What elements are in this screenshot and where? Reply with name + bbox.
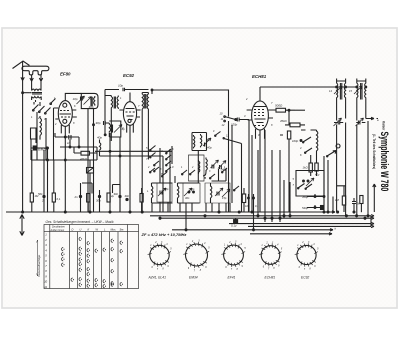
svg-text:30p: 30p (96, 121, 101, 125)
svg-text:0,1: 0,1 (57, 197, 61, 201)
contact (305, 148, 312, 153)
antenna (13, 61, 30, 93)
socket circle ECH81 (259, 242, 283, 270)
wires from T1 (88, 109, 94, 212)
output arrow (366, 117, 378, 119)
svg-text:50k: 50k (38, 192, 43, 196)
contact at EF80 grid (51, 99, 56, 104)
svg-text:30n: 30n (114, 192, 119, 196)
cap bars (81, 97, 83, 101)
cluster verticals (324, 156, 333, 213)
switch left of ECH81 (225, 117, 236, 120)
svg-text:40n: 40n (125, 194, 130, 198)
svg-text:Außen Innen: Außen Innen (50, 229, 65, 232)
coil L2 (40, 118, 42, 140)
svg-text:15p: 15p (222, 196, 227, 200)
svg-text:40μ: 40μ (315, 173, 320, 177)
svg-text:10p: 10p (118, 84, 123, 88)
resistor 47k (81, 151, 90, 155)
100p dot + switch (300, 140, 302, 142)
EF80 top wire (61, 93, 81, 212)
wire (34, 102, 40, 118)
cap right (352, 198, 356, 212)
svg-text:EM34: EM34 (189, 276, 198, 280)
svg-text:30n: 30n (96, 199, 101, 203)
junction antenna (23, 92, 30, 94)
IF transformer 2 (357, 81, 366, 100)
svg-text:10: 10 (44, 280, 47, 284)
resistor vert right edge (360, 196, 363, 204)
LC tank band: block 1 (152, 183, 153, 203)
svg-text:EF41: EF41 (228, 276, 236, 280)
svg-text:U: U (80, 228, 82, 232)
EF80 left grid wire (48, 108, 54, 212)
wire y147 (60, 146, 97, 148)
svg-text:40p: 40p (190, 187, 195, 191)
svg-text:K: K (88, 228, 90, 232)
right bus connector (371, 215, 374, 228)
resistor small right (321, 206, 324, 210)
svg-text:100p: 100p (292, 139, 299, 143)
block 3 (211, 183, 212, 203)
svg-text:10n: 10n (245, 204, 250, 208)
coil left of EC92 (111, 96, 118, 110)
dipole antenna (22, 66, 49, 75)
wire left vertical (23, 93, 31, 212)
svg-text:ECH81: ECH81 (265, 276, 276, 280)
svg-text:Ser.: Ser. (120, 228, 125, 232)
switch arrow diag (327, 151, 336, 157)
svg-text:30p: 30p (164, 187, 169, 191)
input transformer L1 (32, 89, 42, 98)
trimmer 4p (114, 125, 122, 133)
1M resistor right (342, 196, 345, 205)
switch group S1 (33, 105, 51, 114)
coil box T1 (81, 93, 98, 108)
svg-text:EC92: EC92 (301, 276, 309, 280)
cap 6,8k block (33, 146, 37, 150)
band wires (152, 183, 200, 203)
svg-text:Kaiser: Kaiser (381, 121, 385, 131)
contact pair right (150, 146, 156, 158)
wires y151 y156 (95, 151, 172, 156)
svg-text:1n: 1n (67, 141, 71, 145)
svg-text:45kΩ: 45kΩ (280, 119, 288, 123)
svg-text:0,1μ: 0,1μ (231, 224, 237, 228)
top contacts row above band (150, 168, 227, 178)
feeder wires (32, 81, 41, 90)
EC92 pins (119, 110, 140, 117)
svg-text:Symphonie W 780: Symphonie W 780 (379, 132, 391, 192)
table switch marks (61, 237, 123, 288)
svg-text:30p: 30p (89, 105, 94, 109)
svg-text:1M: 1M (335, 198, 340, 202)
socket circle EF41 (221, 242, 246, 272)
EC92 top/bottom wires (127, 93, 134, 213)
cap 100p (236, 118, 250, 122)
LC block A mid (192, 133, 207, 151)
svg-text:(1. Teil des Schaltbildes): (1. Teil des Schaltbildes) (372, 134, 376, 169)
switch ladder (154, 149, 171, 171)
350p (314, 196, 316, 198)
LC block B mid (189, 155, 205, 181)
loop box with contacts (296, 171, 324, 197)
second comp row (234, 186, 239, 190)
EF80 tube U1 (58, 101, 72, 127)
svg-text:Mus.: Mus. (111, 228, 117, 232)
switch right of block A (215, 132, 242, 144)
top links comp row (82, 183, 120, 194)
svg-text:2n: 2n (74, 195, 79, 199)
svg-text:AZ41, EL41: AZ41, EL41 (148, 276, 167, 280)
cap 0,1 on bus (234, 220, 238, 223)
terminal arrow down right (373, 184, 376, 212)
EF80 internals (63, 103, 67, 107)
table frame (44, 225, 139, 289)
svg-text:ZF = 472 kHz + 10,7MHz: ZF = 472 kHz + 10,7MHz (141, 232, 187, 237)
ECH81 tube U3 (252, 101, 269, 130)
IF1 lower caps (334, 121, 343, 125)
coil (109, 123, 112, 133)
IF transformer 1 (337, 81, 346, 100)
svg-text:500Ω: 500Ω (275, 104, 283, 108)
lower-left comp row (30, 193, 33, 202)
socket circle EC92 (295, 242, 319, 271)
ECH81 internals (254, 107, 266, 126)
svg-text:EC92: EC92 (123, 73, 135, 78)
loop box (109, 121, 121, 137)
pointer double arrow (20, 215, 24, 236)
svg-text:1kΩ: 1kΩ (303, 166, 309, 170)
bus wires (6, 212, 371, 234)
svg-text:40p: 40p (97, 136, 102, 140)
svg-text:D: D (72, 228, 74, 232)
socket circle EM34 (183, 241, 210, 273)
svg-text:30n: 30n (185, 196, 190, 200)
bracket loop (31, 128, 37, 143)
EF80 pin stubs (54, 108, 77, 119)
ECH81 wires (256, 87, 265, 212)
block 2 (178, 183, 179, 203)
EC92 tube U2 (123, 102, 136, 126)
svg-text:140p: 140p (206, 146, 213, 150)
svg-text:4p: 4p (122, 127, 126, 131)
socket circle AZ41/EL41 (148, 242, 173, 271)
cap 10p mid (105, 88, 149, 92)
wire to IF (295, 109, 305, 111)
svg-text:10p: 10p (73, 97, 78, 101)
rectifier box (87, 168, 94, 174)
long verticals (32, 112, 88, 212)
EC92 internals (126, 109, 135, 120)
bus end arrows (329, 211, 335, 235)
long top wire to ECH81 (152, 90, 229, 117)
svg-text:EF80: EF80 (60, 72, 71, 77)
dipole feeder arrows (30, 75, 43, 81)
cathode cap 1n (55, 135, 79, 147)
coil right of EC92 (142, 93, 148, 110)
540p (314, 207, 316, 209)
svg-text:Ges. Schaltstellungen Innenant: Ges. Schaltstellungen Innenant. – UKW – … (46, 220, 114, 224)
coil vert (317, 130, 318, 161)
table row numbers (44, 233, 47, 289)
IF2 lower caps (356, 121, 365, 125)
resistor 500 (276, 108, 286, 112)
resistor horizontal 45k (290, 123, 300, 127)
junction dots on bus (22, 211, 24, 213)
ECH81 pins (247, 110, 273, 120)
svg-text:ECH81: ECH81 (252, 74, 267, 79)
resistor 40u vertical (315, 163, 318, 171)
resistor vert (287, 131, 290, 139)
wire y160 (31, 148, 97, 160)
